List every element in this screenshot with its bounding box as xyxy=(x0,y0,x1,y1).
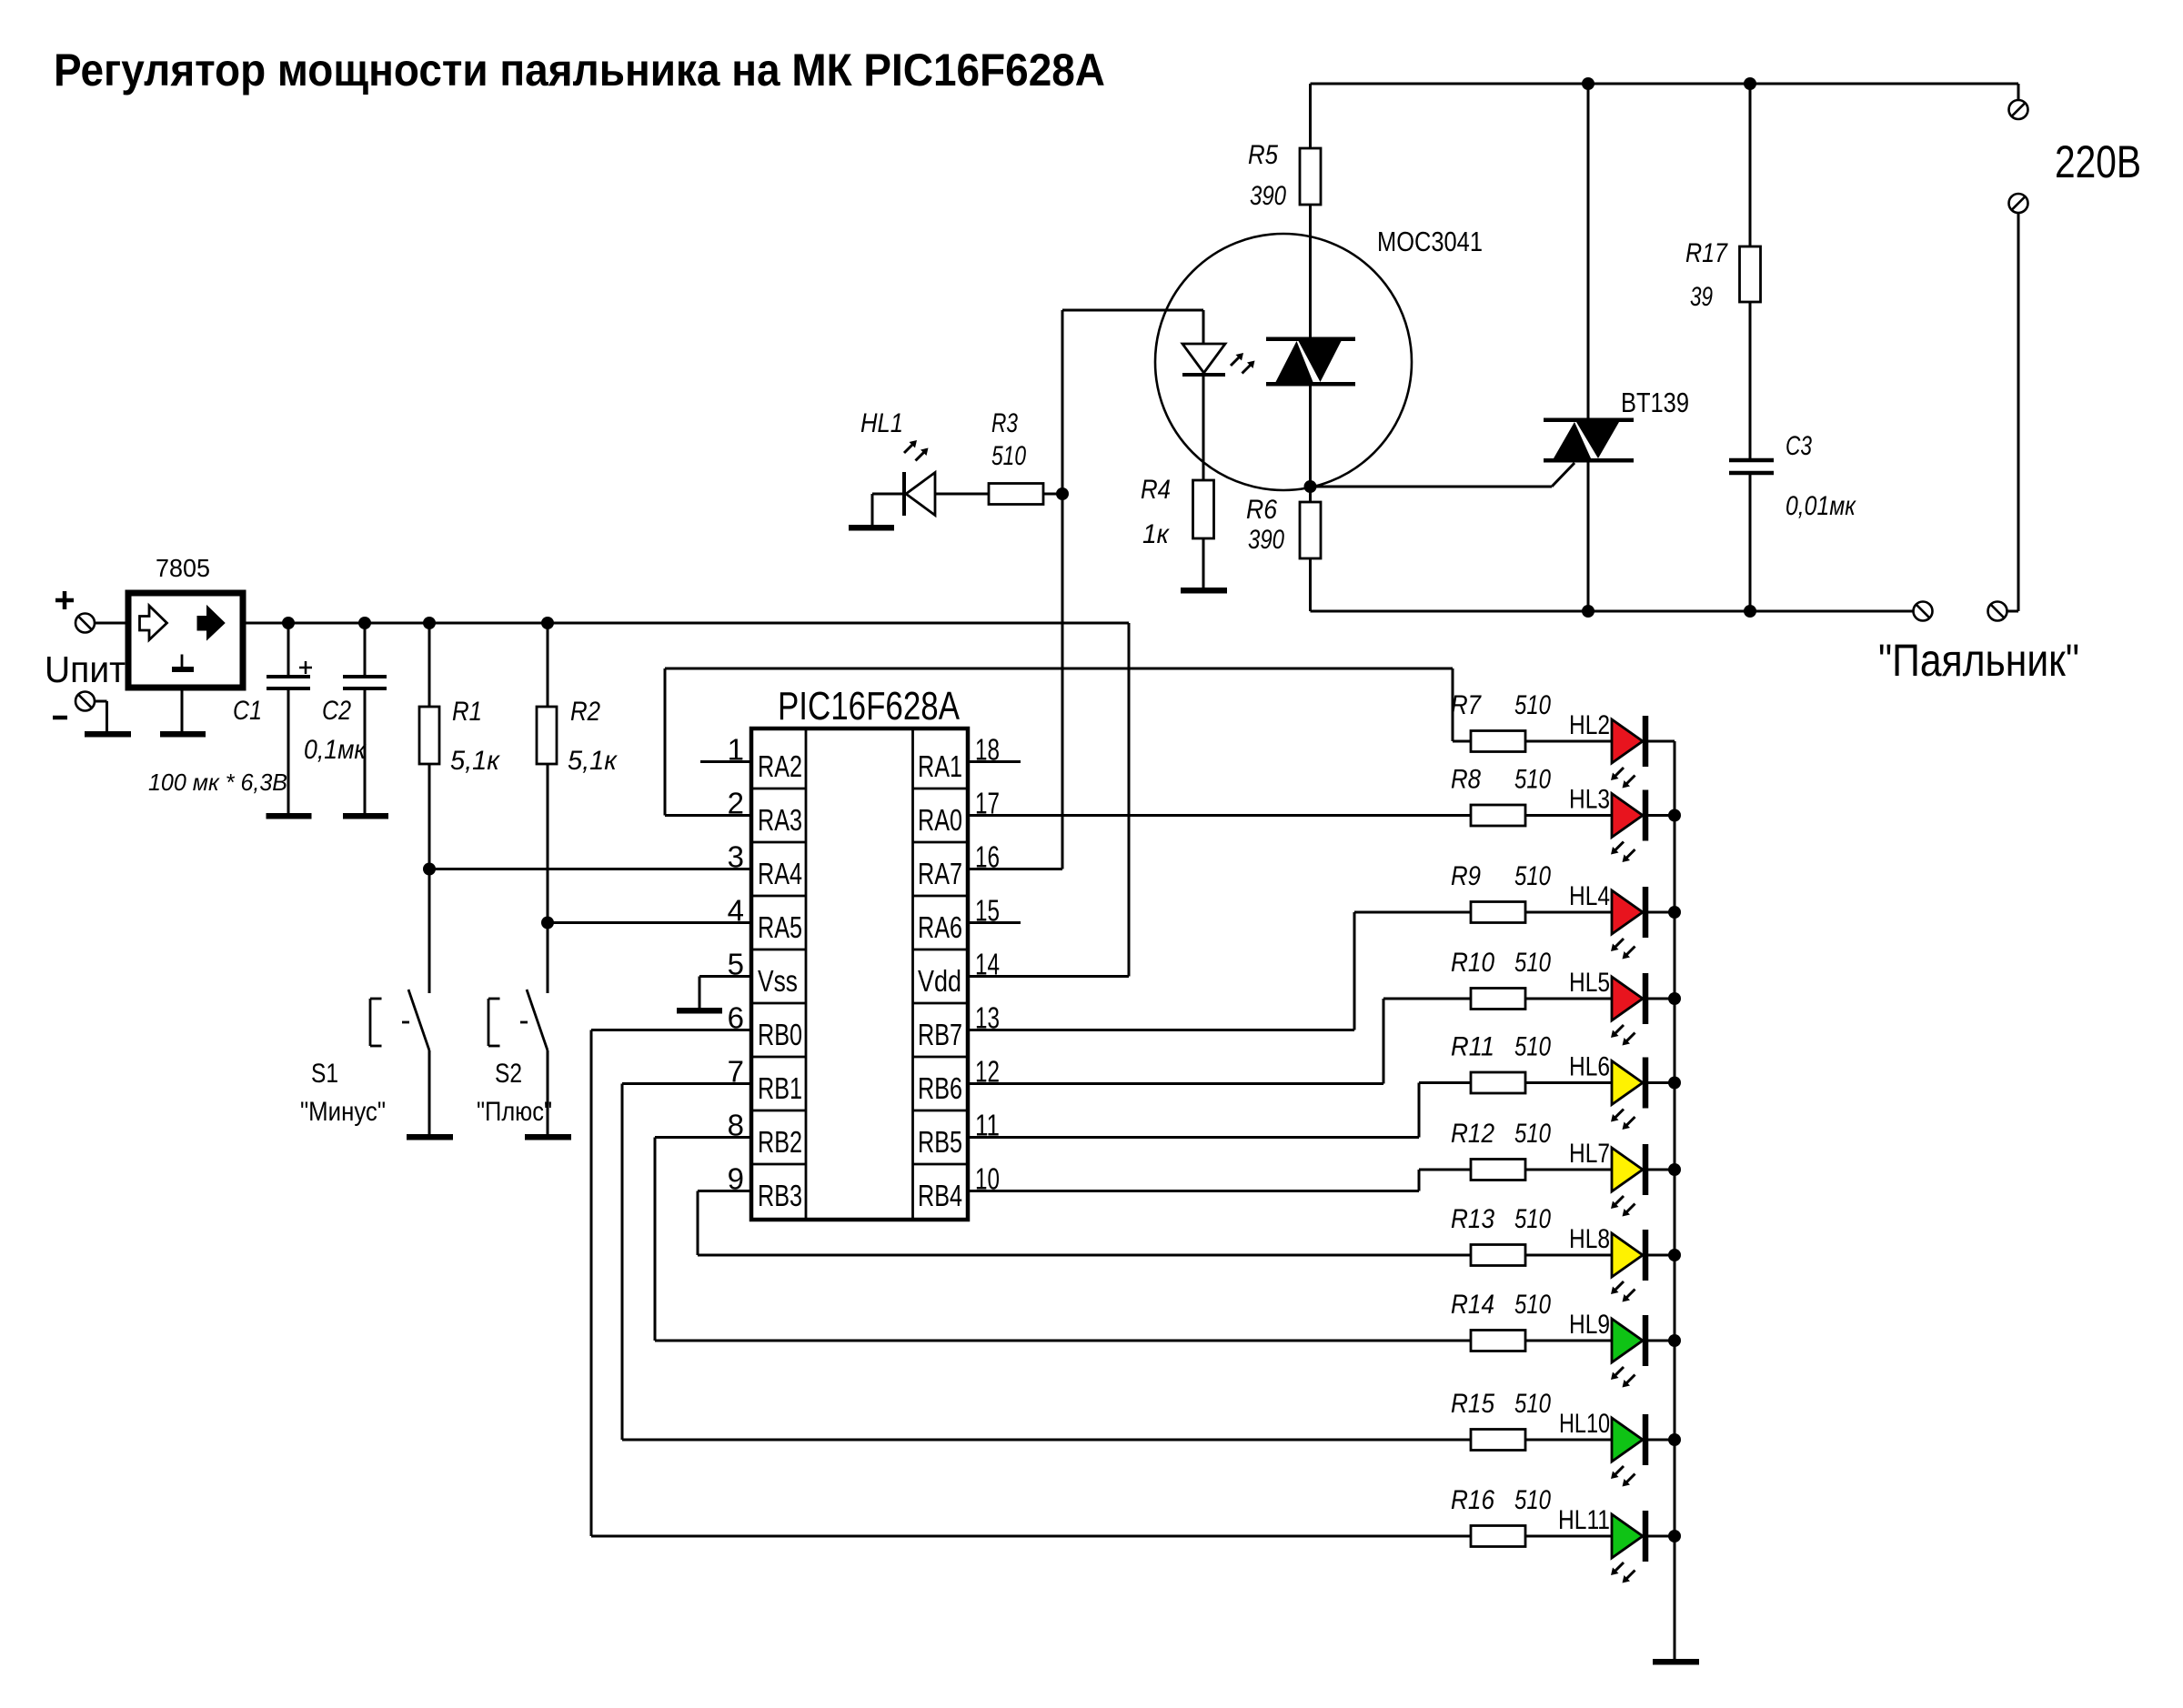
svg-text:HL8: HL8 xyxy=(1569,1224,1610,1254)
svg-text:RB4: RB4 xyxy=(918,1179,962,1212)
svg-text:RB5: RB5 xyxy=(918,1125,962,1159)
svg-text:510: 510 xyxy=(1514,861,1551,891)
svg-text:0,01мк: 0,01мк xyxy=(1786,491,1857,521)
svg-text:R13: R13 xyxy=(1451,1204,1494,1234)
svg-text:R15: R15 xyxy=(1451,1389,1494,1419)
svg-text:1к: 1к xyxy=(1142,519,1171,549)
svg-text:510: 510 xyxy=(1514,948,1551,978)
svg-text:Vdd: Vdd xyxy=(918,964,961,998)
svg-text:R9: R9 xyxy=(1451,861,1481,891)
svg-text:HL6: HL6 xyxy=(1569,1052,1610,1082)
svg-text:HL3: HL3 xyxy=(1569,785,1610,815)
svg-text:390: 390 xyxy=(1250,181,1286,211)
svg-text:RB6: RB6 xyxy=(918,1071,962,1105)
svg-text:7805: 7805 xyxy=(156,554,210,582)
svg-text:RB1: RB1 xyxy=(758,1071,802,1105)
svg-text:BT139: BT139 xyxy=(1621,387,1689,418)
svg-text:"Минус": "Минус" xyxy=(300,1097,386,1127)
svg-text:R11: R11 xyxy=(1451,1032,1494,1062)
svg-text:"Паяльник": "Паяльник" xyxy=(1878,635,2079,686)
svg-text:Uпит: Uпит xyxy=(45,648,126,690)
svg-text:390: 390 xyxy=(1248,525,1284,555)
svg-text:R6: R6 xyxy=(1246,495,1277,525)
svg-text:MOC3041: MOC3041 xyxy=(1377,226,1483,257)
svg-text:510: 510 xyxy=(1514,1204,1551,1234)
svg-text:HL4: HL4 xyxy=(1569,881,1610,911)
svg-text:RB3: RB3 xyxy=(758,1179,802,1212)
svg-text:HL9: HL9 xyxy=(1569,1310,1610,1340)
svg-text:S1: S1 xyxy=(311,1059,338,1089)
svg-text:R1: R1 xyxy=(452,697,482,727)
svg-text:Регулятор мощности паяльника н: Регулятор мощности паяльника на МК PIC16… xyxy=(54,45,1105,95)
svg-text:R16: R16 xyxy=(1451,1485,1494,1515)
svg-text:HL7: HL7 xyxy=(1569,1139,1610,1169)
svg-text:RA4: RA4 xyxy=(758,857,802,890)
svg-text:RA3: RA3 xyxy=(758,803,802,837)
svg-text:HL10: HL10 xyxy=(1559,1409,1610,1439)
svg-text:220В: 220В xyxy=(2055,136,2141,187)
svg-text:510: 510 xyxy=(1514,1032,1551,1062)
svg-text:39: 39 xyxy=(1690,282,1713,312)
svg-text:R3: R3 xyxy=(991,408,1018,438)
svg-text:510: 510 xyxy=(1514,1485,1551,1515)
svg-text:HL5: HL5 xyxy=(1569,968,1610,998)
svg-text:510: 510 xyxy=(991,441,1026,471)
svg-text:S2: S2 xyxy=(495,1059,522,1089)
svg-text:R14: R14 xyxy=(1451,1290,1494,1320)
svg-text:R8: R8 xyxy=(1451,765,1481,795)
svg-text:4: 4 xyxy=(728,894,744,928)
svg-text:"Плюс": "Плюс" xyxy=(477,1097,552,1127)
svg-text:RA7: RA7 xyxy=(918,857,962,890)
svg-text:5,1к: 5,1к xyxy=(568,746,619,776)
svg-text:R10: R10 xyxy=(1451,948,1494,978)
svg-text:R4: R4 xyxy=(1141,475,1171,505)
svg-text:510: 510 xyxy=(1514,1119,1551,1149)
svg-text:0,1мк: 0,1мк xyxy=(304,735,367,765)
svg-text:RA5: RA5 xyxy=(758,910,802,944)
svg-text:R5: R5 xyxy=(1248,140,1278,170)
svg-text:RB7: RB7 xyxy=(918,1018,962,1051)
svg-text:RA1: RA1 xyxy=(918,749,962,783)
svg-text:100 мк * 6,3В: 100 мк * 6,3В xyxy=(148,769,287,796)
svg-text:RA6: RA6 xyxy=(918,910,962,944)
svg-text:510: 510 xyxy=(1514,1389,1551,1419)
svg-text:Vss: Vss xyxy=(758,964,798,998)
svg-text:R17: R17 xyxy=(1685,238,1728,268)
svg-text:510: 510 xyxy=(1514,1290,1551,1320)
svg-text:5,1к: 5,1к xyxy=(450,746,501,776)
svg-text:3: 3 xyxy=(728,840,744,874)
svg-text:510: 510 xyxy=(1514,690,1551,720)
svg-text:R2: R2 xyxy=(570,697,600,727)
svg-text:C3: C3 xyxy=(1786,431,1812,461)
svg-text:510: 510 xyxy=(1514,765,1551,795)
svg-text:HL11: HL11 xyxy=(1558,1505,1610,1535)
svg-text:C2: C2 xyxy=(322,696,351,726)
svg-text:HL2: HL2 xyxy=(1569,710,1610,740)
svg-text:RA2: RA2 xyxy=(758,749,802,783)
svg-text:RA0: RA0 xyxy=(918,803,962,837)
svg-text:RB0: RB0 xyxy=(758,1018,802,1051)
svg-text:C1: C1 xyxy=(233,696,262,726)
svg-text:R12: R12 xyxy=(1451,1119,1494,1149)
svg-text:HL1: HL1 xyxy=(860,408,903,438)
svg-text:RB2: RB2 xyxy=(758,1125,802,1159)
svg-text:R7: R7 xyxy=(1451,690,1482,720)
svg-text:PIC16F628A: PIC16F628A xyxy=(778,684,961,728)
